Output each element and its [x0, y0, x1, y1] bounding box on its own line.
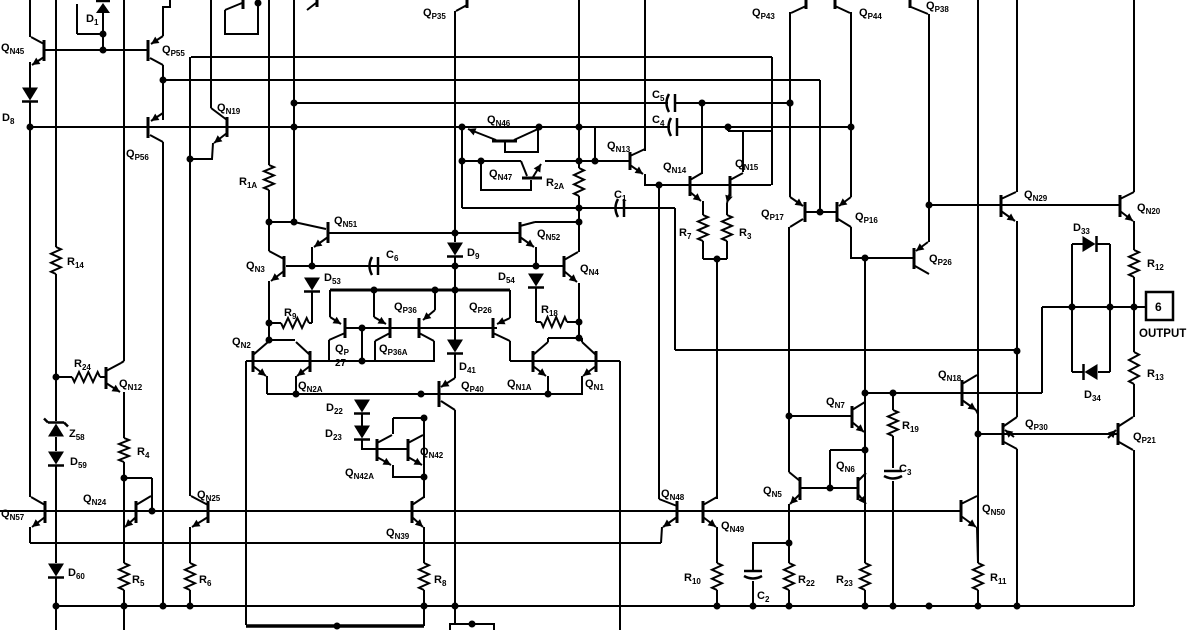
- wire: [55, 466, 57, 563]
- label QN51: [334, 215, 358, 229]
- wire: [536, 321, 541, 323]
- node: [786, 540, 793, 547]
- wire: [56, 605, 1134, 607]
- wire: [771, 57, 773, 185]
- wire: [345, 327, 497, 329]
- wire: [674, 208, 676, 350]
- resistor R22: [784, 563, 794, 590]
- wire: [728, 130, 772, 132]
- wire: [535, 221, 579, 223]
- wire: [703, 258, 727, 260]
- wire: [892, 436, 894, 468]
- diode D9: [447, 243, 463, 257]
- diode D54: [528, 274, 544, 288]
- wire: [162, 80, 164, 120]
- label QN6: [836, 460, 855, 474]
- node: [576, 205, 583, 212]
- label QN52: [537, 228, 561, 242]
- node: [452, 287, 459, 294]
- transistor QN1A: [533, 342, 548, 376]
- wire: [1003, 433, 1118, 435]
- node: [862, 255, 869, 262]
- wire: [311, 291, 313, 323]
- wire: [1098, 371, 1110, 373]
- wire: [311, 247, 313, 266]
- diode D34: [1084, 364, 1098, 380]
- wire: [716, 527, 718, 563]
- wire: [419, 333, 434, 341]
- wire: [246, 360, 362, 362]
- node: [786, 603, 793, 610]
- node: [121, 475, 128, 482]
- label QN3: [246, 260, 265, 274]
- wire: [578, 0, 580, 168]
- resistor R4: [119, 438, 129, 462]
- wire: [819, 80, 821, 212]
- label QN24: [83, 493, 107, 507]
- wire: [328, 340, 330, 361]
- wire: [1097, 243, 1110, 245]
- label C1: [614, 189, 627, 203]
- label R24: [74, 358, 91, 372]
- resistor R7: [698, 215, 708, 241]
- node: [536, 124, 543, 131]
- node: [432, 287, 439, 294]
- wire: [976, 410, 978, 414]
- transistor QN6: [858, 473, 866, 504]
- diode D53: [304, 278, 320, 292]
- label D22: [326, 402, 343, 416]
- label QP36A: [379, 343, 408, 357]
- node: [862, 390, 869, 397]
- capacitor C4: [669, 118, 678, 136]
- node: [459, 158, 466, 165]
- wire: [124, 477, 152, 479]
- diode D23: [354, 426, 370, 440]
- wire: [295, 376, 297, 394]
- label QN46: [487, 114, 511, 128]
- wire: [123, 590, 125, 630]
- wire: [454, 11, 456, 242]
- wire: [423, 418, 425, 498]
- wire: [162, 65, 164, 80]
- wire: [789, 12, 791, 197]
- label QN14: [663, 161, 687, 175]
- node: [266, 219, 273, 226]
- wire: [701, 103, 703, 174]
- wire: [462, 207, 675, 209]
- label R22: [798, 574, 815, 588]
- node: [817, 209, 824, 216]
- transistor QP36b: [419, 310, 435, 338]
- node: [334, 623, 341, 630]
- wire: [864, 504, 866, 563]
- label D23: [325, 428, 342, 442]
- wire: [1016, 449, 1018, 606]
- wire: [702, 201, 704, 215]
- transistor QN13: [630, 149, 645, 174]
- transistor QP17: [790, 197, 805, 227]
- label QN49: [721, 520, 745, 534]
- wire: [658, 185, 660, 499]
- label Z58: [69, 428, 85, 442]
- wire: [535, 287, 537, 322]
- node: [576, 219, 583, 226]
- wire: [726, 203, 728, 215]
- node: [1131, 304, 1138, 311]
- wire: [594, 127, 596, 161]
- wire: [375, 341, 434, 361]
- transistor QN7: [852, 402, 865, 432]
- wire: [830, 449, 865, 451]
- node: [53, 374, 60, 381]
- label D60: [68, 567, 85, 581]
- label QP26 (quad): [469, 301, 492, 315]
- wire: [29, 0, 31, 37]
- label R13: [1147, 368, 1164, 382]
- resistor R9: [281, 318, 309, 328]
- wire: [190, 143, 213, 159]
- diode D41: [447, 340, 463, 354]
- label D34: [1084, 389, 1101, 403]
- wire: [210, 0, 212, 108]
- wire: [294, 222, 326, 229]
- label R9: [284, 307, 297, 321]
- wire: [1133, 221, 1135, 250]
- node: [478, 158, 485, 165]
- transistor QN49: [703, 497, 717, 527]
- transistor (top, cut): [225, 0, 262, 34]
- transistor QN14: [690, 173, 702, 201]
- node: [452, 603, 459, 610]
- diode D8: [22, 88, 38, 102]
- node: [160, 603, 167, 610]
- transistor QN5: [789, 472, 800, 504]
- wire: [661, 527, 662, 543]
- label OUTPUT: [1139, 328, 1186, 340]
- label R8: [434, 574, 447, 588]
- svg-text:6: 6: [1155, 300, 1162, 314]
- node: [291, 124, 298, 131]
- node: [187, 156, 194, 163]
- label QP30: [1025, 418, 1048, 432]
- resistor R18: [541, 317, 567, 327]
- wire: [454, 606, 456, 624]
- wire: [716, 259, 718, 499]
- node: [787, 100, 794, 107]
- wire: [44, 49, 148, 51]
- capacitor C6: [370, 257, 379, 275]
- transistor QN50: [961, 496, 977, 527]
- wire: [977, 590, 979, 606]
- transistor QN47: [481, 161, 542, 190]
- label QN12: [119, 378, 143, 392]
- label R11: [990, 572, 1007, 586]
- transistor QN2: [253, 342, 268, 376]
- node: [452, 230, 459, 237]
- wire: [55, 0, 57, 247]
- resistor R24: [72, 372, 100, 382]
- transistor QP40: [439, 378, 455, 410]
- transistor QN45: [31, 37, 44, 65]
- wire: [163, 0, 170, 36]
- resistor R10: [712, 563, 722, 590]
- wire: [928, 14, 930, 242]
- node: [421, 415, 428, 422]
- wire: [1071, 307, 1073, 372]
- wire: [434, 290, 436, 310]
- wire: [547, 376, 549, 394]
- diode D59: [48, 452, 64, 466]
- wire: [29, 101, 31, 497]
- resistor R23: [860, 563, 870, 590]
- node: [926, 603, 933, 610]
- resistor R11: [973, 563, 983, 590]
- transistor (top, cut): [307, 0, 317, 10]
- transistor QN48: [663, 501, 677, 527]
- wire: [268, 281, 270, 340]
- wire: [742, 131, 744, 172]
- node: [459, 124, 466, 131]
- wire: [788, 416, 790, 472]
- node: [266, 337, 273, 344]
- wire: [851, 227, 914, 258]
- wire: [77, 33, 103, 35]
- capacitor C1: [616, 199, 625, 217]
- wire: [547, 338, 549, 342]
- wire: [892, 393, 894, 410]
- label QP56: [126, 148, 149, 162]
- transistor QN4: [564, 252, 578, 282]
- transistor QP30: [1003, 417, 1017, 449]
- wire: [1041, 307, 1043, 393]
- label R1A: [239, 176, 257, 190]
- wire: [1042, 306, 1146, 308]
- transistor QN52: [520, 222, 535, 247]
- wire: [645, 174, 771, 185]
- label QN29: [1024, 189, 1048, 203]
- wire: [578, 322, 580, 338]
- label R5: [132, 574, 145, 588]
- wire: [267, 393, 581, 395]
- node: [149, 508, 156, 515]
- label C6: [386, 249, 399, 263]
- label QN19: [217, 102, 241, 116]
- wire: [30, 126, 670, 128]
- wire: [644, 0, 646, 151]
- wire: [269, 221, 294, 223]
- node: [418, 391, 425, 398]
- wire: [977, 590, 979, 606]
- wire: [977, 527, 978, 563]
- wire: [977, 0, 979, 563]
- diode D33: [1083, 236, 1097, 252]
- node: [890, 603, 897, 610]
- wire: [454, 354, 456, 378]
- wire: [423, 590, 425, 626]
- label QN50: [982, 503, 1006, 517]
- wire: [716, 590, 718, 606]
- node: [187, 603, 194, 610]
- wire: [1133, 277, 1135, 352]
- label QN2A: [298, 380, 323, 394]
- label QP43: [752, 7, 775, 21]
- transistor QN46: [468, 128, 538, 152]
- node: [787, 100, 794, 107]
- wire: [678, 126, 851, 128]
- node: [827, 485, 834, 492]
- wire: [55, 578, 57, 630]
- label D41: [459, 361, 476, 375]
- wire: [788, 504, 790, 543]
- node: [576, 124, 583, 131]
- node: [1107, 304, 1114, 311]
- wire: [865, 392, 1042, 394]
- node: [699, 100, 706, 107]
- wire: [189, 159, 191, 496]
- wire: [567, 321, 579, 323]
- wire: [76, 4, 78, 34]
- transistor QN29: [1001, 192, 1016, 221]
- label C4: [652, 114, 665, 128]
- label QN2: [232, 336, 251, 350]
- wire: [191, 56, 772, 58]
- svg-text:27: 27: [335, 358, 347, 369]
- node: [862, 603, 869, 610]
- wire: [1133, 384, 1135, 417]
- wire: [788, 543, 790, 563]
- wire: [309, 322, 312, 324]
- wire: [1133, 0, 1135, 192]
- label C3: [899, 463, 912, 477]
- node: [576, 158, 583, 165]
- label R4: [137, 446, 150, 460]
- resistor R19: [888, 410, 898, 436]
- wire: [510, 360, 620, 362]
- node: [359, 325, 366, 332]
- wire: [509, 341, 511, 361]
- node: [890, 390, 897, 397]
- wire: [189, 590, 191, 606]
- transistor QP35 (top, cut): [456, 0, 467, 11]
- wire: [978, 433, 1003, 435]
- label QN7: [826, 396, 845, 410]
- wire (bottom box, cut): [450, 624, 494, 630]
- wire: [56, 376, 72, 378]
- wire: [293, 0, 295, 222]
- node: [371, 287, 378, 294]
- wire: [268, 190, 270, 251]
- transistor QN19: [211, 108, 227, 143]
- transistor QP55: [148, 36, 163, 65]
- wire: [151, 478, 153, 511]
- wire: [578, 222, 580, 252]
- diode D22: [354, 400, 370, 414]
- node: [862, 447, 869, 454]
- resistor R5: [119, 563, 129, 590]
- resistor R13: [1129, 352, 1139, 384]
- label QN57: [1, 508, 25, 522]
- node: [975, 431, 982, 438]
- wire: [454, 410, 456, 606]
- node: [576, 335, 583, 342]
- wire: [100, 376, 106, 378]
- wire: [676, 102, 790, 104]
- transistor QP26 (quad): [493, 317, 510, 341]
- wire: [29, 62, 31, 88]
- wire: [294, 102, 668, 104]
- label QP35: [423, 7, 446, 21]
- node: [53, 603, 60, 610]
- transistor QN51: [314, 222, 328, 247]
- wire: [454, 266, 456, 340]
- wire: [892, 481, 894, 606]
- wire: [800, 487, 858, 489]
- wire: [462, 160, 521, 162]
- transistor QN2A: [296, 342, 310, 376]
- wire: [361, 328, 363, 361]
- wire: [726, 241, 728, 259]
- wire: [329, 290, 331, 317]
- label R7: [679, 227, 692, 241]
- node: [656, 182, 663, 189]
- label QP40: [461, 380, 484, 394]
- node: [421, 603, 428, 610]
- wire: [1133, 450, 1135, 606]
- wire: [1072, 371, 1083, 373]
- wire: [535, 247, 537, 266]
- wire: [121, 361, 124, 363]
- label R10: [684, 572, 701, 586]
- wire: [123, 0, 125, 361]
- node: [714, 603, 721, 610]
- label R14: [67, 256, 84, 270]
- wire: [375, 333, 390, 341]
- wire: [373, 290, 375, 317]
- wire: [55, 437, 57, 451]
- transistor QN24: [125, 496, 151, 527]
- capacitor C5: [667, 94, 676, 112]
- label QN42A: [345, 467, 374, 481]
- wire: [581, 376, 582, 394]
- resistor R8: [419, 563, 429, 590]
- node: [291, 100, 298, 107]
- node: [1069, 304, 1076, 311]
- node: [975, 603, 982, 610]
- label QP17: [761, 208, 784, 222]
- wire: [578, 283, 580, 322]
- node: [421, 474, 428, 481]
- wire: [789, 415, 852, 417]
- label QN4: [580, 263, 599, 277]
- label R12: [1147, 258, 1164, 272]
- wire: [392, 418, 394, 434]
- node: [291, 219, 298, 226]
- transistor QN20: [1120, 192, 1134, 221]
- wire: [1071, 244, 1073, 307]
- wire: [393, 465, 424, 477]
- node: [27, 124, 34, 131]
- resistor R2A: [574, 168, 584, 196]
- transistor QN25: [191, 496, 208, 527]
- wire: [123, 462, 125, 563]
- node: [576, 319, 583, 326]
- label QN18: [938, 369, 962, 383]
- svg-text:OUTPUT: OUTPUT: [1139, 328, 1186, 340]
- label D54: [498, 271, 515, 285]
- wire: [123, 392, 125, 438]
- label QN1: [585, 378, 604, 392]
